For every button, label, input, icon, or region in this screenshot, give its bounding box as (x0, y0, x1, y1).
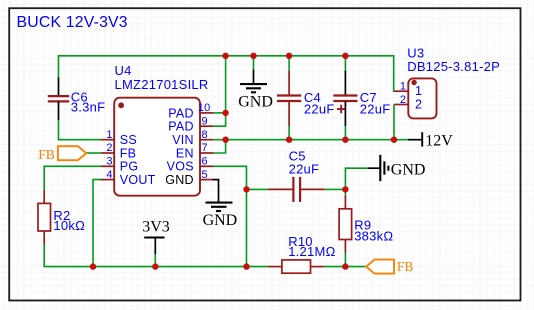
capacitor C4 22uF polarized (277, 71, 346, 126)
wire VOS pin6 down (213, 166, 246, 266)
resistor R10 1.21M (269, 234, 336, 273)
svg-text:GND: GND (165, 173, 194, 187)
svg-text:GND: GND (391, 161, 426, 178)
svg-text:BUCK 12V-3V3: BUCK 12V-3V3 (17, 14, 128, 31)
svg-text:GND: GND (203, 212, 238, 229)
port FB left (38, 146, 86, 162)
svg-text:1: 1 (106, 129, 112, 141)
svg-text:4: 4 (106, 169, 112, 181)
svg-text:FB: FB (397, 259, 414, 274)
resistor R2 10k (38, 190, 85, 244)
svg-text:LMZ21701SILR: LMZ21701SILR (115, 77, 209, 92)
svg-text:9: 9 (202, 115, 208, 127)
wire bottom 3V3 rail (44, 244, 269, 266)
svg-text:VOUT: VOUT (120, 173, 156, 187)
wire node to right GND symbol (345, 168, 368, 189)
port FB right (366, 259, 413, 274)
svg-text:1.21MΩ: 1.21MΩ (288, 244, 335, 259)
ground symbol right GND (368, 155, 425, 181)
svg-text:2: 2 (415, 97, 422, 111)
wire VOUT pin4 down (93, 180, 101, 267)
svg-text:EN: EN (176, 146, 194, 160)
net label 12V (408, 132, 453, 149)
capacitor C5 22uF (268, 148, 325, 202)
svg-text:22uF: 22uF (304, 102, 335, 117)
svg-text:SS: SS (120, 133, 137, 147)
svg-text:2: 2 (106, 142, 112, 154)
wire C6 top to GND rail (58, 56, 60, 78)
wire FB port right link (345, 266, 366, 268)
wire C4 bottom (288, 126, 290, 140)
ground symbol under U4 pin5 GND (203, 180, 238, 229)
wire VIN pin8 link (213, 139, 225, 141)
wire R9 top link (344, 189, 346, 195)
wire 12V rail (226, 139, 408, 141)
wire PAD pins vertical (225, 56, 227, 126)
wire pin9 stub link (213, 125, 225, 127)
svg-text:3V3: 3V3 (142, 219, 170, 236)
svg-text:U4: U4 (115, 63, 132, 78)
svg-text:8: 8 (202, 129, 208, 141)
resistor R9 383k (339, 196, 393, 253)
svg-text:383kΩ: 383kΩ (354, 228, 393, 243)
wire pin10 stub link (213, 112, 225, 114)
svg-text:VIN: VIN (172, 133, 194, 147)
svg-text:7: 7 (202, 142, 208, 154)
wire C5 right link (325, 188, 346, 190)
svg-text:22uF: 22uF (360, 102, 391, 117)
svg-text:10: 10 (198, 102, 211, 114)
svg-text:1: 1 (400, 81, 406, 93)
svg-text:5: 5 (202, 169, 208, 181)
svg-text:VOS: VOS (167, 160, 194, 174)
wire FB port left link (86, 152, 101, 154)
wire PG pin3 to R2 (44, 166, 101, 190)
wire C6 bottom to SS pin1 (59, 120, 101, 140)
svg-text:FB: FB (120, 146, 136, 160)
capacitor C7 22uF (333, 71, 390, 126)
op-amp U4 LMZ21701SILR buck regulator (101, 63, 213, 196)
wire EN pin7 to 12V rail (213, 140, 225, 153)
svg-text:DB125-3.81-2P: DB125-3.81-2P (407, 59, 500, 74)
wire C5 left link (247, 188, 268, 190)
wire R10 right link (324, 266, 346, 268)
svg-text:PAD: PAD (168, 106, 194, 120)
capacitor C6 3.3nF (48, 78, 106, 121)
svg-text:6: 6 (202, 156, 208, 168)
svg-text:10kΩ: 10kΩ (53, 218, 85, 233)
svg-text:PG: PG (120, 160, 139, 174)
svg-text:GND: GND (238, 94, 273, 111)
wire GND symbol stem green (253, 56, 255, 70)
svg-text:2: 2 (400, 94, 406, 106)
svg-text:3.3nF: 3.3nF (71, 99, 106, 114)
wire C4 top (288, 56, 290, 71)
svg-text:12V: 12V (425, 133, 453, 150)
wire 3V3 label stem green (154, 254, 156, 267)
wire R9 bottom link (344, 253, 346, 267)
svg-text:3: 3 (106, 156, 112, 168)
wire C7 top (344, 56, 346, 71)
svg-text:FB: FB (38, 147, 55, 162)
wire GND top rail (59, 56, 394, 91)
wire U3 pin2 to 12V rail (393, 105, 395, 140)
net label 3V3 (142, 219, 170, 255)
connector U3 DB125-3.81-2P (394, 46, 500, 119)
svg-text:1: 1 (415, 84, 422, 98)
svg-text:22uF: 22uF (289, 162, 320, 177)
ground symbol top GND (238, 70, 273, 111)
wire C7 bottom (344, 126, 346, 140)
svg-text:PAD: PAD (168, 120, 194, 134)
